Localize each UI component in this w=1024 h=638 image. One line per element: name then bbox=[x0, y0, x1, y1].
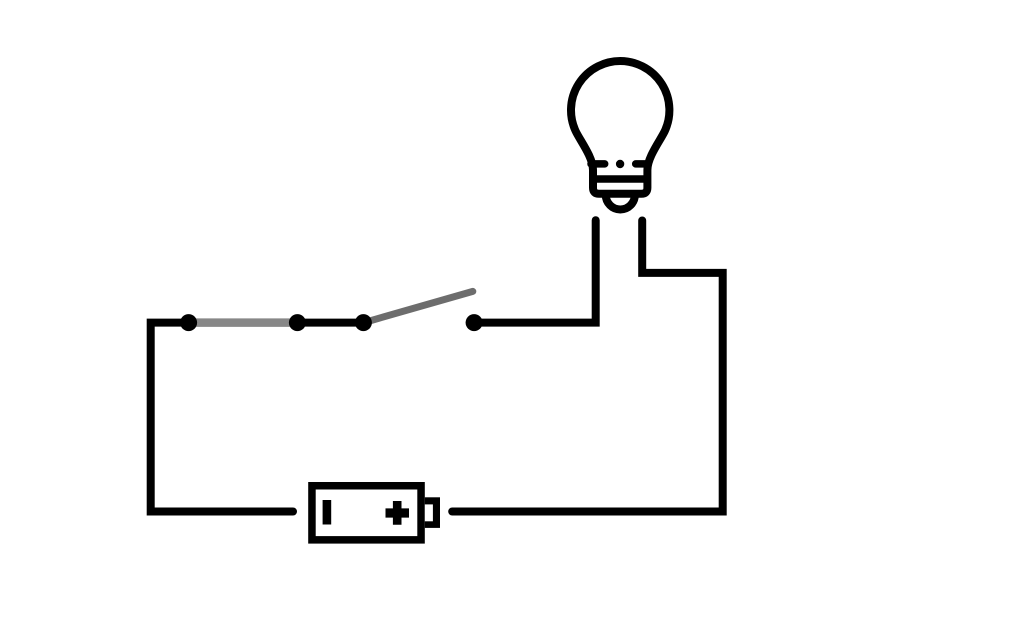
lamp filament dot bbox=[616, 160, 624, 168]
wire: from node D right then up to lamp left terminal bbox=[474, 220, 596, 322]
lamp DS1 glass outline bbox=[571, 61, 669, 194]
wire: black segment between node B and node C bbox=[297, 319, 363, 327]
lamp base full line bbox=[593, 175, 647, 183]
battery minus mark bbox=[323, 500, 332, 525]
battery positive terminal nub bbox=[425, 497, 440, 528]
node A (switch terminal dot 1) bbox=[180, 314, 197, 331]
battery plus mark bbox=[386, 501, 410, 525]
battery BT1 body bbox=[312, 486, 421, 540]
wire: lamp right terminal down, right, down, bottom run to battery plus bbox=[452, 221, 723, 512]
switch S1 lever (open, gray) bbox=[363, 291, 472, 322]
lamp filament line right segment bbox=[636, 160, 648, 168]
lamp filament line left segment bbox=[591, 160, 605, 168]
node C (switch pivot dot 3) bbox=[355, 314, 372, 331]
wire: gray closed contact segment between node A and node B bbox=[189, 318, 298, 327]
node D (switch terminal dot 4) bbox=[466, 314, 483, 331]
wire: left loop (switch row left, down, bottom run to battery minus) bbox=[151, 323, 293, 512]
lamp base bottom tip arc bbox=[606, 195, 635, 210]
node B (switch terminal dot 2) bbox=[289, 314, 306, 331]
